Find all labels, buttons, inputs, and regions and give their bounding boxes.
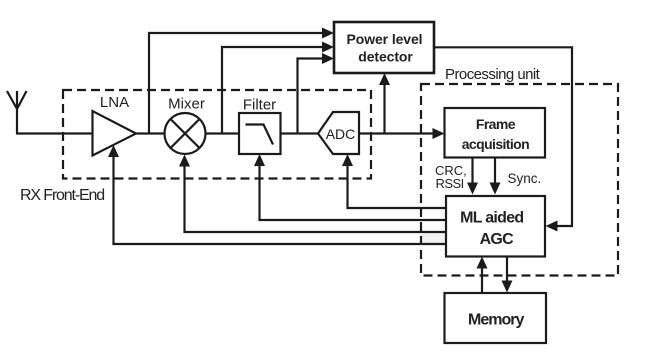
svg-text:Memory: Memory [468,311,524,328]
svg-text:AGC: AGC [480,231,515,248]
svg-text:ML aided: ML aided [460,209,523,226]
svg-text:Filter: Filter [243,97,276,114]
svg-text:ADC: ADC [326,126,356,142]
svg-text:Frame: Frame [476,116,516,132]
svg-text:Processing unit: Processing unit [445,66,541,83]
svg-text:Power level: Power level [347,31,423,47]
svg-text:acquisition: acquisition [462,136,529,152]
svg-text:detector: detector [358,49,413,65]
svg-text:LNA: LNA [100,94,129,111]
svg-text:Mixer: Mixer [168,96,205,113]
svg-text:RSSI: RSSI [436,176,464,191]
svg-text:RX Front-End: RX Front-End [20,187,104,204]
svg-text:Sync.: Sync. [508,171,542,186]
